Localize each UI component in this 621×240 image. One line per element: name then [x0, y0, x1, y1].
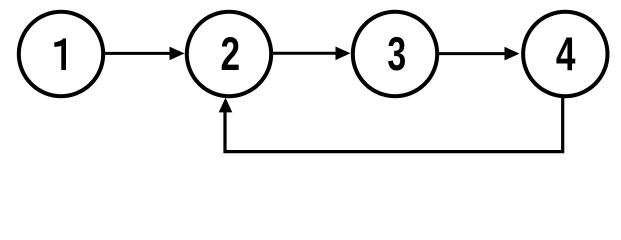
node 2 label "2" [220, 27, 240, 80]
svg-text:4: 4 [556, 27, 576, 80]
return wire 4->2 (down, left, up) [225, 96, 563, 152]
wire 2->3 [270, 52, 337, 55]
svg-text:2: 2 [220, 27, 240, 80]
node 2 circle [187, 12, 271, 96]
arrowhead into node 3 (left) [336, 47, 351, 61]
node 3 label "3" [387, 28, 406, 81]
wire 1->2 [102, 52, 171, 55]
arrowhead into node 4 (left) [505, 47, 520, 61]
arrowhead into node 2 (bottom, pointing up) [219, 98, 233, 113]
node 1 circle [19, 12, 103, 96]
node 4 circle [523, 12, 607, 96]
wire 3->4 [436, 52, 506, 55]
arrowhead into node 2 (left) [170, 47, 185, 61]
node 4 label "4" [556, 27, 576, 80]
node 3 circle [353, 12, 437, 96]
svg-text:3: 3 [387, 28, 406, 81]
node 1 label "1" [54, 38, 66, 70]
